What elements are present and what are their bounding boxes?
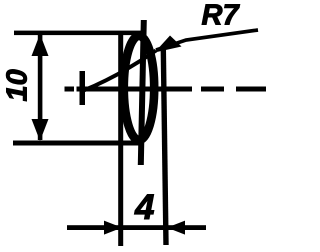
svg-text:4: 4	[134, 188, 154, 227]
right slot line	[163, 48, 166, 245]
lens vertical centerline	[141, 20, 144, 165]
dimension line 4 right tail	[167, 225, 206, 230]
center cross tick	[80, 71, 86, 105]
centerline dash 2	[236, 87, 266, 92]
radius line R7	[84, 51, 157, 91]
arrowhead right (left side of 4)	[104, 221, 122, 235]
arrowhead up	[32, 34, 49, 56]
leader line	[156, 30, 258, 50]
horizontal centerline solid	[77, 87, 193, 92]
leader arrowhead	[155, 36, 182, 53]
svg-text:R7: R7	[202, 0, 241, 32]
dimension line 4 middle	[122, 225, 167, 230]
centerline left dash	[65, 87, 75, 92]
svg-text:10: 10	[1, 69, 33, 101]
bottom extension line	[13, 141, 142, 146]
arrowhead left (right side of 4)	[167, 221, 185, 235]
dimension line 4 left tail	[67, 225, 122, 230]
left slot line	[118, 33, 123, 246]
dimension line 10 (vertical)	[38, 35, 43, 140]
lens ellipse	[124, 36, 154, 140]
centerline dash 1	[201, 87, 224, 92]
top extension line	[14, 31, 142, 35]
arrowhead down	[32, 119, 49, 141]
